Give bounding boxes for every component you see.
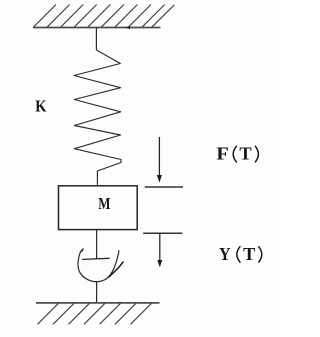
damper cup pen hook (top-left flourish) [80,249,83,253]
svg-text:M: M [98,194,111,213]
wire: rod from damper to ground [96,282,98,303]
svg-text:F: F [216,144,228,164]
reference line at mass bottom (right) [143,232,182,234]
svg-text:T: T [239,144,251,164]
damper piston plate [82,258,109,259]
spring K zigzag [74,50,121,186]
wire: rod from mass to damper piston [96,230,98,259]
damper extra diagonal stroke (right flourish) [108,262,123,278]
displacement arrow Y(T) shaft [159,233,161,261]
wire: hanger rod from ceiling to spring [95,28,97,51]
fixed ceiling support line [33,27,161,29]
label F(T) [216,144,258,164]
label Y(T) [219,244,262,264]
ground hatching [38,303,152,324]
damper cylinder cup [78,250,119,281]
displacement arrow Y(T) head [157,260,162,267]
reference line at mass top (right) [145,186,183,188]
svg-text:T: T [243,244,255,264]
mass M box [59,186,138,230]
svg-text:K: K [35,96,47,115]
ceiling hatching [33,5,174,28]
ground line [36,302,160,304]
force arrow F(T) shaft [158,137,160,177]
small left arrowhead on ceiling line [126,26,130,29]
svg-text:Y: Y [219,244,231,264]
force arrow F(T) head [157,175,162,183]
